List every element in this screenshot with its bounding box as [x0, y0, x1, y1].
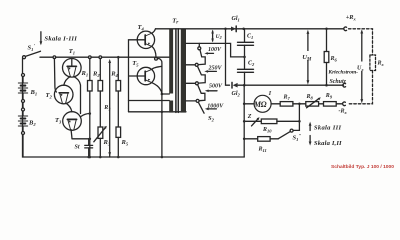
wire T5 emitter — [152, 83, 162, 94]
resistor R2 — [99, 59, 101, 81]
transformer Tr primary — [169, 29, 173, 94]
capacitor St — [88, 139, 90, 145]
junction dots on oscillator return line — [161, 156, 164, 159]
label Z with arrow — [247, 114, 252, 120]
wire R1 bottom to rail — [89, 91, 91, 157]
wire T3 emitter bottom — [71, 130, 90, 139]
resistor R6 — [325, 28, 328, 31]
svg-text:Skala I-III: Skala I-III — [44, 36, 77, 43]
wire T4 collector to top — [152, 29, 155, 33]
blade 100V — [199, 50, 206, 65]
potentiometer R8 — [306, 102, 319, 107]
blade 1000V switch S2 — [199, 103, 205, 114]
label Skala I,II with arrow — [309, 136, 311, 143]
diode Gl2 — [233, 83, 238, 88]
wire Gl2 branch — [226, 29, 230, 85]
svg-text:R8: R8 — [306, 94, 314, 101]
voltage arrow U2 — [212, 31, 214, 41]
arrow 250V — [207, 70, 217, 72]
svg-text:C1: C1 — [247, 33, 253, 40]
transformer Tr secondary — [181, 29, 186, 113]
arrow 500V — [207, 90, 217, 92]
svg-text:Schutz: Schutz — [330, 79, 347, 85]
wire T5 collector — [152, 66, 162, 69]
diode Gl1 — [224, 28, 227, 31]
wire bottom rail — [23, 59, 245, 158]
svg-text:R11: R11 — [258, 147, 267, 154]
battery B1 — [22, 74, 25, 77]
wire T5 to primary — [162, 93, 169, 95]
svg-text:100V: 100V — [208, 47, 222, 53]
svg-text:R3: R3 — [103, 105, 110, 112]
svg-text:Z: Z — [247, 114, 252, 120]
wire shunt branch — [293, 104, 299, 131]
transformer core — [176, 29, 178, 113]
resistor R10 — [244, 120, 261, 122]
svg-text:Kriechstrom-: Kriechstrom- — [327, 70, 358, 76]
svg-text:St: St — [75, 145, 80, 151]
wire R3 bottom to rail — [99, 138, 101, 157]
svg-text:-Rx: -Rx — [339, 109, 348, 116]
terminal +Rx — [344, 27, 347, 31]
svg-text:C2: C2 — [248, 60, 255, 67]
transistor T3 — [63, 112, 82, 131]
wire R5 bottom to rail — [117, 137, 119, 157]
svg-text:Rx: Rx — [377, 61, 385, 68]
arrow 1000V — [207, 108, 216, 110]
wire node to right vertical — [157, 58, 162, 157]
svg-text:Ux: Ux — [357, 66, 364, 73]
potentiometer R3 — [98, 127, 103, 138]
arrow skala — [40, 32, 42, 44]
wire dashed Rx loop — [348, 29, 373, 104]
resistor R1 — [89, 59, 91, 81]
svg-text:Skala I,II: Skala I,II — [314, 140, 342, 147]
svg-text:Gl1: Gl1 — [232, 16, 240, 23]
svg-text:500V: 500V — [209, 84, 223, 90]
contact 1000V — [196, 99, 199, 102]
wire base T2 from node — [54, 59, 56, 93]
svg-text:Gl2: Gl2 — [232, 91, 241, 98]
transistor T1 — [63, 59, 82, 78]
capacitor C2 — [238, 69, 254, 72]
wire top hv rail — [156, 28, 344, 30]
voltage arrow UM — [307, 33, 309, 82]
svg-text:U2: U2 — [216, 34, 222, 40]
contact 250V — [195, 63, 198, 66]
label Skala I-III — [44, 36, 77, 43]
blade 500V — [198, 85, 205, 101]
wire 100V tap — [186, 43, 245, 57]
resistor R4 — [117, 59, 119, 81]
capacitor C1 — [244, 29, 246, 42]
resistor R9 — [324, 102, 337, 107]
node circles on top rail — [53, 56, 56, 59]
contact 100V — [198, 47, 201, 50]
blade 250V — [198, 66, 206, 83]
junction dots on R1 line — [89, 112, 92, 115]
transistor T5 — [137, 67, 154, 84]
svg-text:R10: R10 — [262, 127, 272, 134]
resistor R7 — [271, 103, 280, 105]
voltage arrow Ux — [361, 32, 363, 100]
wire T3 collector to R1 line — [81, 114, 90, 117]
wire feedback loop — [129, 101, 187, 112]
svg-text:MΩ: MΩ — [253, 100, 267, 109]
wire meter branch down — [243, 85, 245, 157]
wire T2 to T3 — [66, 103, 72, 112]
svg-text:R7: R7 — [283, 95, 291, 102]
transistor T2 — [54, 85, 73, 104]
svg-text:R6: R6 — [330, 56, 338, 63]
wire 1000V tap — [186, 100, 196, 102]
label type red — [331, 164, 394, 170]
label Kriechstrom-Schutz — [327, 70, 358, 85]
wire R2 to R3 — [99, 91, 101, 127]
resistor R5 — [116, 127, 121, 137]
contact 500V — [195, 82, 198, 85]
wire T1 collector down to node — [74, 77, 81, 114]
wire guard rail — [244, 84, 343, 86]
battery B2 — [22, 100, 25, 103]
svg-text:250V: 250V — [208, 66, 223, 72]
wire 250V tap — [186, 64, 195, 66]
wire 500V tap — [186, 82, 196, 84]
wire R4 to R5 — [117, 91, 119, 127]
svg-text:Skala III: Skala III — [314, 124, 342, 131]
switch S1'' — [290, 129, 293, 132]
meter MOhm — [254, 95, 271, 112]
wire top rail — [40, 56, 169, 58]
transistor T4 — [137, 31, 154, 48]
terminal guard — [343, 83, 346, 87]
terminal -Rx — [343, 102, 346, 106]
wiper R3 line — [109, 63, 111, 158]
resistor Rx dashed — [370, 55, 376, 71]
wire base loop T4 T5 — [129, 40, 138, 112]
meter wire — [244, 103, 254, 105]
label Skala III with arrow — [309, 125, 311, 131]
svg-text:R9: R9 — [325, 93, 333, 100]
wire T4 emitter to node — [152, 47, 156, 58]
arrow 100V — [207, 52, 214, 54]
wire T1 emitter to T2 — [64, 77, 70, 86]
resistor R11 — [244, 138, 258, 140]
svg-text:Schaltbild Typ. J 100 / 1000: Schaltbild Typ. J 100 / 1000 — [331, 164, 394, 170]
switch S1' — [23, 56, 26, 59]
